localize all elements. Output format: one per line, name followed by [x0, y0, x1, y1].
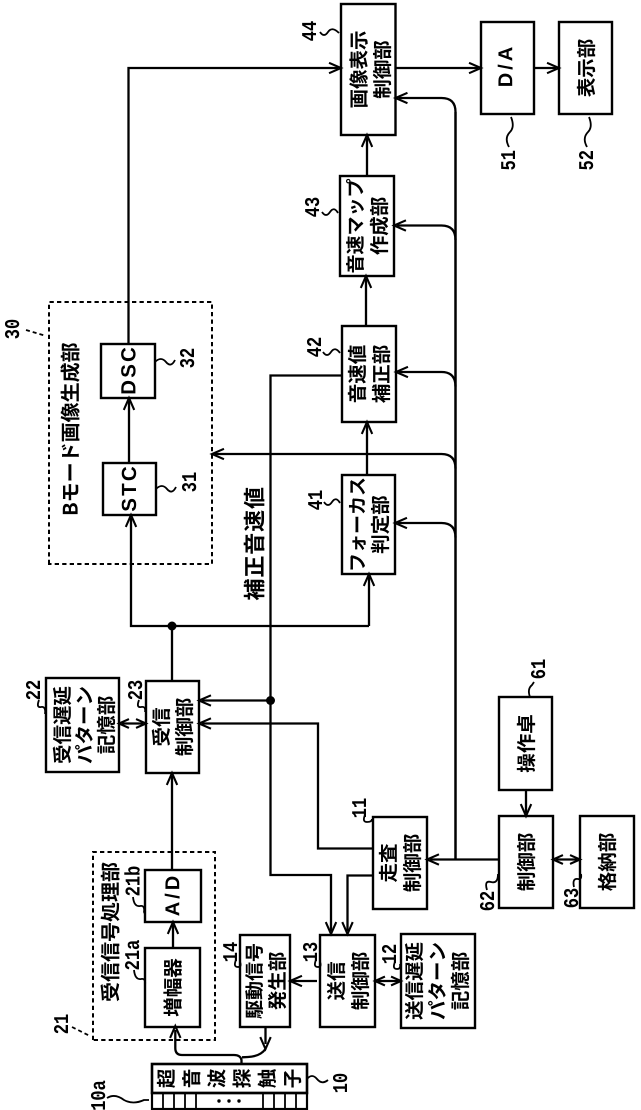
wire corrected sound speed to 23	[202, 699, 271, 701]
leader 10	[307, 1076, 328, 1082]
leader 41	[324, 499, 340, 505]
block 32 DSC	[101, 344, 155, 398]
block 22 受信遅延パターン記憶部 reception delay pattern memory	[46, 678, 119, 772]
wire bus branch to 43	[397, 226, 456, 241]
leader 61	[529, 682, 534, 697]
wire 43 to 44	[366, 138, 368, 176]
leader 14	[235, 960, 241, 967]
wire A/D to 23	[171, 776, 173, 870]
junction dot corrected sound speed to 23	[266, 696, 275, 705]
ref label 62	[480, 892, 494, 910]
wire 62-63 bidirectional	[556, 858, 577, 860]
block 21b A/D converter	[145, 870, 201, 922]
wire bus branch to 41	[398, 523, 456, 538]
leader 30 dashed	[26, 330, 46, 336]
leader 63	[574, 874, 582, 887]
ref label 23	[128, 681, 142, 700]
wire 13-12 bidirectional	[378, 980, 398, 982]
block 63 格納部 storage	[580, 816, 634, 908]
ref label 10	[333, 1074, 347, 1092]
leader 13	[315, 960, 321, 967]
block 13 送信制御部 transmission control	[320, 935, 375, 1027]
wire 44 to D/A	[396, 67, 479, 69]
ref label 13	[303, 943, 317, 962]
wire bus branch to B-mode group 30	[215, 454, 456, 469]
leader 31	[156, 486, 176, 492]
block 11 走査制御部 scan control	[373, 817, 427, 909]
block 31 STC	[103, 463, 156, 515]
block 41 フォーカス判定部 focus judgement	[342, 475, 395, 574]
A/D text	[165, 877, 180, 916]
ref label 52	[579, 151, 593, 170]
wire 22-23 bidirectional	[122, 722, 143, 724]
wire trunk to 41	[368, 577, 370, 626]
wire probe to amplifier	[175, 1030, 241, 1065]
ref label 41	[308, 490, 322, 509]
wire bus branch to 42	[399, 372, 456, 387]
ref label 30	[5, 320, 19, 339]
wire amplifier to A/D	[172, 925, 174, 948]
ref label 51	[501, 151, 515, 170]
block 14 駆動信号発生部 drive signal generator	[240, 935, 290, 1027]
ref label 32	[180, 349, 194, 368]
wire DSC to 44	[129, 68, 339, 344]
block 51 D/A converter	[481, 22, 534, 114]
label text Bモード画像生成部	[60, 343, 79, 514]
dashed group 21 受信信号処理部 reception signal processing	[93, 852, 215, 1040]
wire 42 to 43	[365, 279, 367, 326]
label text 補正音速値 corrected sound speed	[244, 488, 265, 600]
ref label 44	[302, 21, 316, 40]
wire bus branch to 44	[399, 98, 456, 112]
leader 62	[486, 874, 498, 890]
leader 43	[322, 209, 338, 215]
wire 11 to 13	[348, 876, 374, 932]
wire 補正音速値 corrected sound speed from 42 to 13	[271, 376, 343, 932]
ref label 22	[26, 681, 40, 700]
transducer element cells and dots	[162, 1093, 164, 1109]
leader 23	[138, 700, 145, 712]
D/A text	[498, 47, 513, 86]
leader 44	[320, 29, 339, 35]
block 43 音速マップ作成部 sound speed map generator	[340, 176, 394, 276]
leader 51	[507, 117, 513, 147]
ref label 42	[307, 338, 321, 357]
leader 21 dashed	[72, 1027, 90, 1036]
leader 52	[585, 117, 591, 147]
wire control bus horizontal	[454, 112, 457, 860]
leader 32	[155, 359, 175, 365]
wire 14 drive signal to probe	[242, 1027, 266, 1057]
ref label 21	[54, 1014, 68, 1033]
block 52 表示部 display	[559, 22, 612, 114]
ref label 21a	[125, 940, 139, 969]
block 42 音速値補正部 sound speed correction	[342, 326, 396, 422]
ref label 61	[531, 659, 545, 678]
leader 10a	[107, 1096, 149, 1103]
wire 41 to 42	[366, 425, 368, 475]
block 61 操作卓 console	[499, 697, 552, 790]
junction dot 23 trunk	[168, 622, 177, 631]
DSC text	[121, 348, 136, 394]
leader 12	[394, 962, 400, 969]
wire 61 to 62	[525, 790, 527, 813]
transducer element array 10a	[152, 1093, 307, 1109]
wire 23 output trunk	[131, 518, 369, 681]
block 44 画像表示制御部 image display control	[341, 4, 396, 135]
ref label 14	[223, 942, 237, 961]
block 23 受信制御部 reception control	[146, 681, 199, 773]
block 10 ultrasound probe 超音波探触子	[152, 1064, 307, 1093]
ref label 11	[352, 798, 366, 817]
wire 13 to 14	[293, 980, 317, 982]
block 12 送信遅延パターン記憶部 transmission delay pattern memory	[401, 934, 475, 1028]
wire 11 to 23	[202, 724, 373, 849]
wire 62 to 11	[430, 858, 499, 860]
leader 42	[323, 349, 340, 355]
leader 11	[364, 815, 372, 822]
block 21a amplifier 増幅器	[145, 948, 200, 1027]
ref label 21b	[124, 866, 139, 895]
label text 受信信号処理部	[101, 863, 120, 1002]
block 62 制御部 controller	[499, 816, 553, 908]
wire STC to DSC	[128, 401, 130, 463]
STC text	[122, 467, 137, 511]
ref label 43	[305, 198, 319, 217]
leader 21b	[133, 897, 145, 914]
dashed group 30 Bモード画像生成部 B-mode image generator	[49, 302, 212, 564]
ref label 10a	[91, 1081, 105, 1110]
probe text 超音波探触子	[157, 1069, 175, 1088]
wire D/A to display 52	[534, 67, 556, 69]
leader 22	[38, 700, 45, 714]
leader 21a	[134, 970, 145, 985]
ref label 12	[382, 945, 396, 963]
ref label 31	[182, 472, 196, 491]
ref label 63	[564, 889, 578, 908]
